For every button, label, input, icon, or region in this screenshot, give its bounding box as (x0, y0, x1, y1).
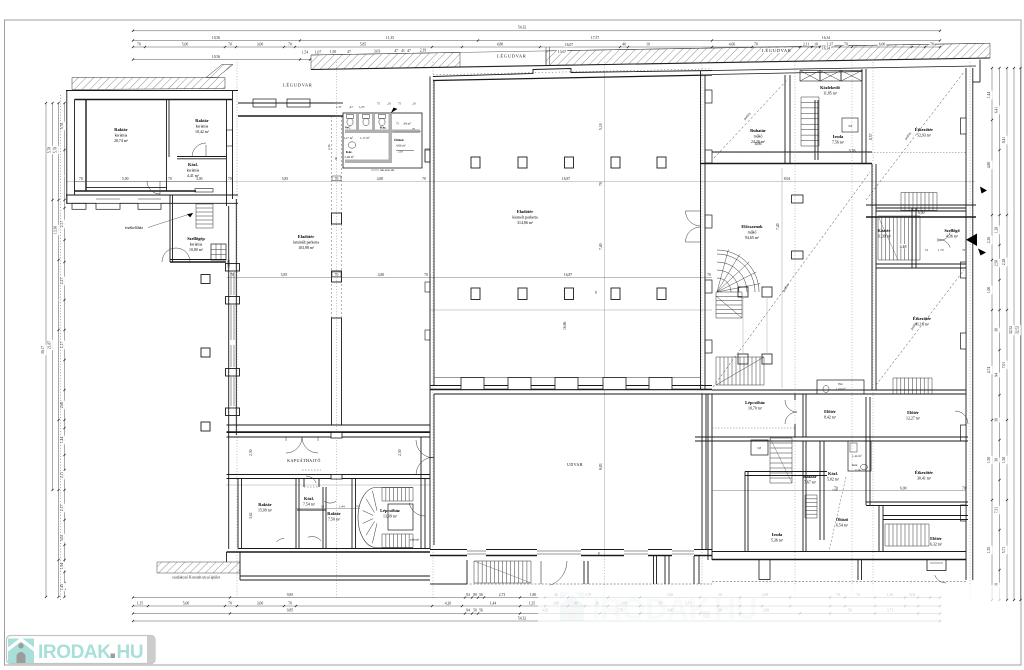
svg-text:70: 70 (597, 551, 601, 555)
svg-text:HU: HU (117, 642, 144, 663)
svg-text:érzékelőház: érzékelőház (125, 226, 143, 230)
svg-text:70: 70 (137, 43, 141, 47)
svg-text:Közlekedő: Közlekedő (820, 85, 841, 90)
porch piers south (759, 560, 770, 580)
walls of rooms (237, 479, 239, 549)
svg-text:94: 94 (995, 373, 999, 377)
dotted line across etkezoter (712, 152, 966, 154)
svg-text:Lépcsőház: Lépcsőház (745, 400, 765, 405)
bottom dimension chains (132, 592, 941, 622)
entrance niche (303, 479, 305, 488)
lepcsohaz 10,70 (745, 400, 765, 411)
toilets (347, 115, 354, 119)
row1 bottom wall (695, 436, 968, 438)
rooms below kapuathajto (258, 502, 273, 513)
dim inside wing (75, 181, 227, 183)
szellogo 4,36 (944, 228, 960, 239)
door arcs rooms (308, 536, 321, 540)
svg-text:47: 47 (407, 49, 411, 53)
svg-text:41: 41 (401, 49, 405, 53)
svg-text:70: 70 (962, 487, 966, 491)
svg-text:kerámia: kerámia (196, 124, 209, 128)
svg-text:75: 75 (398, 102, 402, 106)
black flag marker (391, 108, 398, 114)
kez wc cell (848, 441, 871, 471)
right dimension chains (987, 67, 1021, 601)
svg-text:Eladótér: Eladótér (517, 209, 533, 214)
svg-text:70: 70 (288, 601, 292, 605)
svg-text:IRODAK: IRODAK (592, 593, 711, 626)
svg-text:tak.szer.tár.: tak.szer.tár. (380, 168, 395, 172)
svg-text:70: 70 (599, 182, 603, 186)
svg-text:70: 70 (754, 43, 758, 47)
svg-text:Iroda: Iroda (833, 134, 844, 139)
wall segment lower colonnade (332, 318, 342, 425)
kapuathajto band (227, 432, 431, 434)
svg-text:47: 47 (347, 50, 351, 54)
small wall stubs elocsarnok (792, 195, 804, 203)
kozl window sill (195, 189, 213, 193)
svg-text:40: 40 (622, 43, 626, 47)
svg-text:HU: HU (714, 593, 757, 626)
faint watermark overlay bottom-right (538, 585, 1006, 631)
svg-text:70: 70 (834, 487, 838, 491)
partition between raktar rooms (166, 100, 168, 192)
svg-text:Raktár: Raktár (327, 511, 340, 516)
svg-text:Ruhatár: Ruhatár (750, 128, 766, 133)
kapu double door (286, 437, 302, 453)
small stair mid (805, 494, 817, 496)
top dimension chains (132, 25, 941, 87)
hall east double door (686, 211, 701, 226)
small lines near oltozo (394, 131, 422, 133)
svg-text:60: 60 (334, 156, 338, 160)
svg-text:Szellőgő: Szellőgő (944, 228, 960, 233)
hatched band center-left segment (311, 52, 460, 69)
svg-text:80: 80 (473, 593, 477, 597)
svg-text:47: 47 (394, 49, 398, 53)
svg-text:LÉGUDVAR: LÉGUDVAR (283, 83, 313, 88)
etkezoter 41 (913, 316, 931, 327)
raktar1 left wall (85, 100, 87, 192)
wall under raktar/kozl (745, 471, 827, 473)
ruhatar room (784, 75, 786, 164)
svg-text:Közl.: Közl. (304, 496, 314, 501)
raktar2 right wall window (227, 130, 233, 146)
svg-text:Wé: Wé (838, 382, 843, 386)
svg-text:Előtér: Előtér (907, 410, 919, 415)
vertical walls mid block (802, 441, 804, 552)
svg-text:70: 70 (335, 177, 339, 181)
szellogep room (169, 195, 171, 262)
svg-text:Iroda: Iroda (772, 532, 783, 537)
room labels wing (114, 127, 129, 144)
svg-text:WC: WC (345, 126, 351, 130)
hatched band left wing (72, 78, 225, 90)
svg-text:pihenő: pihenő (410, 538, 420, 542)
hatched band right segment (546, 43, 990, 65)
door at right outer wall (955, 411, 968, 424)
skylight X-braced cells (800, 71, 820, 82)
svg-text:56: 56 (479, 593, 483, 597)
elocsarnok columns SW (738, 287, 748, 297)
svg-text:kerámia: kerámia (190, 242, 203, 246)
black arrows right edge (966, 234, 977, 247)
svg-text:műkő: műkő (754, 134, 763, 138)
south dashed boundary (712, 581, 966, 583)
svg-text:Előcsarnok: Előcsarnok (741, 224, 763, 229)
svg-text:Eladótér: Eladótér (298, 234, 314, 239)
elotier top wall (883, 515, 968, 517)
svg-text:Lépcsőház: Lépcsőház (380, 508, 400, 513)
svg-text:Köztér: Köztér (878, 228, 891, 233)
dim row y277 (227, 277, 713, 279)
top wall with windows of left-center hall (238, 102, 335, 104)
shaft 3,8 box (751, 440, 768, 455)
raktar1 bottom wall (86, 187, 167, 189)
doors bottom of szellogep (162, 248, 176, 262)
hall columns row2 (471, 288, 480, 300)
hatched band slanted segment (206, 65, 233, 78)
svg-text:70: 70 (335, 273, 339, 277)
construction axis dotted lines (236, 62, 238, 598)
NE corner jog (979, 60, 981, 83)
svg-text:Raktár: Raktár (258, 502, 271, 507)
window box on hall wall near wc (425, 149, 430, 162)
wc strip above raktar (817, 380, 864, 394)
svg-text:94: 94 (466, 593, 470, 597)
svg-text:UDVAR: UDVAR (567, 463, 583, 467)
svg-text:70: 70 (228, 177, 232, 181)
colonnade axis in hall (331, 116, 333, 318)
svg-text:70: 70 (962, 248, 966, 252)
svg-text:30: 30 (995, 458, 999, 462)
double door lepcsohaz (785, 400, 797, 412)
shaft grid (211, 244, 226, 260)
walls row1 (802, 394, 804, 437)
svg-text:30: 30 (995, 328, 999, 332)
svg-text:50: 50 (473, 609, 477, 613)
svg-text:70: 70 (424, 273, 428, 277)
svg-text:Szellőgép: Szellőgép (187, 236, 205, 241)
big hall right wall (700, 71, 702, 391)
fan stairs elocsarnok bottom-left (717, 278, 731, 292)
stair flight mid (770, 437, 792, 439)
svg-text:70: 70 (707, 273, 711, 277)
svg-text:Öltöző: Öltöző (836, 517, 849, 522)
right-bottom block left wall (707, 394, 709, 560)
hall bottom wall (227, 424, 431, 426)
wall stub from wing to wc block (335, 102, 343, 104)
svg-text:10: 10 (925, 248, 929, 252)
top wall right section (712, 66, 976, 71)
svg-text:70: 70 (930, 43, 934, 47)
outer wall top-left wing (66, 90, 238, 92)
big hall left wall (429, 77, 431, 391)
strip door (549, 561, 567, 586)
svg-text:10: 10 (814, 43, 818, 47)
wing bottom wall with windows (66, 194, 238, 196)
svg-text:Előtér: Előtér (930, 536, 942, 541)
kozlekedo stairs (801, 96, 819, 98)
svg-text:10: 10 (646, 43, 650, 47)
big hall top wall (433, 69, 712, 77)
svg-text:70: 70 (79, 177, 83, 181)
small shaft 3.8 (842, 118, 858, 132)
svg-text:75: 75 (377, 102, 381, 106)
svg-text:Öltöző: Öltöző (394, 137, 404, 142)
svg-text:Kéz: Kéz (852, 463, 858, 467)
strip left room (430, 583, 467, 585)
svg-text:kiemelt parketta: kiemelt parketta (512, 215, 537, 219)
svg-text:laminált parketta: laminált parketta (293, 240, 320, 244)
right outer wall (965, 68, 967, 580)
door kozl (147, 181, 160, 194)
kozl top wall (177, 156, 226, 158)
svg-text:Közl.: Közl. (188, 162, 198, 167)
bottom-right stair (884, 524, 886, 546)
svg-text:94: 94 (466, 609, 470, 613)
svg-text:Raktár: Raktár (803, 474, 816, 479)
svg-text:70: 70 (594, 290, 598, 294)
svg-text:Étkezőtér: Étkezőtér (915, 127, 933, 132)
hall columns row1 (471, 157, 480, 168)
left dimension chains (41, 102, 65, 598)
door arcs in udvar left wall (416, 440, 434, 458)
udvar walls (429, 390, 431, 549)
svg-text:Raktár: Raktár (195, 118, 208, 123)
wing right wall (226, 100, 228, 207)
columns in left hall (332, 213, 342, 224)
wall y390 across right (712, 389, 966, 391)
svg-text:30: 30 (995, 418, 999, 422)
szellogo door leaves (937, 232, 950, 241)
szellogep stair (196, 203, 213, 205)
iroda room (814, 100, 816, 160)
colonnade wall with piers (228, 206, 230, 549)
wc block outer (343, 113, 422, 168)
svg-text:Raktár: Raktár (114, 127, 127, 132)
svg-text:Étkezőtér: Étkezőtér (915, 470, 933, 475)
svg-text:csatlakozó Kossuth utcai épüle: csatlakozó Kossuth utcai épület (172, 576, 221, 580)
ground hatch bottom-left (157, 562, 240, 573)
svg-text:Közl.: Közl. (828, 471, 838, 476)
door arc to udvar (409, 503, 425, 516)
door raktar2 (192, 143, 206, 157)
stairs top-left of etkezoter41 (892, 378, 894, 394)
etkezoter 30,41 (915, 470, 933, 481)
middle horizontal wall right section (712, 151, 872, 153)
east wall interior window boxes (961, 118, 967, 134)
stair block middle right (900, 193, 902, 211)
svg-text:70: 70 (422, 177, 426, 181)
svg-text:Kéz.: Kéz. (380, 126, 387, 130)
hall bottom wall with piers (434, 377, 700, 379)
walls around stairs (871, 164, 873, 390)
koztear stair horizontal (877, 216, 879, 260)
svg-text:KAPUÁTHAJTÓ: KAPUÁTHAJTÓ (287, 458, 321, 463)
svg-text:70: 70 (288, 43, 292, 47)
svg-text:70: 70 (228, 43, 232, 47)
strip bottom dashed boundary (430, 583, 712, 585)
svg-text:Kéz.: Kéz. (346, 150, 353, 154)
svg-text:kerámia: kerámia (187, 168, 200, 172)
bottom strip stairs (473, 561, 475, 583)
svg-text:210: 210 (398, 150, 403, 154)
svg-text:70: 70 (168, 177, 172, 181)
winding stair (358, 488, 413, 548)
freestanding columns (201, 275, 210, 284)
bottom outer wall right portion (712, 551, 966, 553)
udvar bottom wall w/ openings (430, 549, 467, 551)
svg-text:56: 56 (479, 609, 483, 613)
svg-text:70: 70 (230, 273, 234, 277)
strip walls (583, 561, 585, 584)
svg-text:kerámia: kerámia (115, 133, 128, 137)
bottom wall continues left block (240, 575, 430, 577)
svg-text:70: 70 (844, 43, 848, 47)
raktar 7,67 + kozl (803, 474, 817, 485)
etkezoter bottom wall (866, 501, 968, 503)
watermark irodak.hu (7, 636, 156, 664)
svg-text:75: 75 (396, 122, 400, 126)
svg-text:70: 70 (228, 601, 232, 605)
svg-text:IRODAK: IRODAK (38, 642, 111, 663)
oltozo 6,54 + iroda + elotier (836, 517, 849, 528)
svg-text:LÉGUDVAR: LÉGUDVAR (762, 48, 792, 53)
svg-text:LÉGUDVAR: LÉGUDVAR (497, 54, 527, 59)
svg-text:műkő: műkő (748, 230, 757, 234)
svg-text:75: 75 (412, 127, 416, 131)
etkezoter52 (861, 69, 863, 164)
svg-text:Előtér: Előtér (824, 409, 836, 414)
